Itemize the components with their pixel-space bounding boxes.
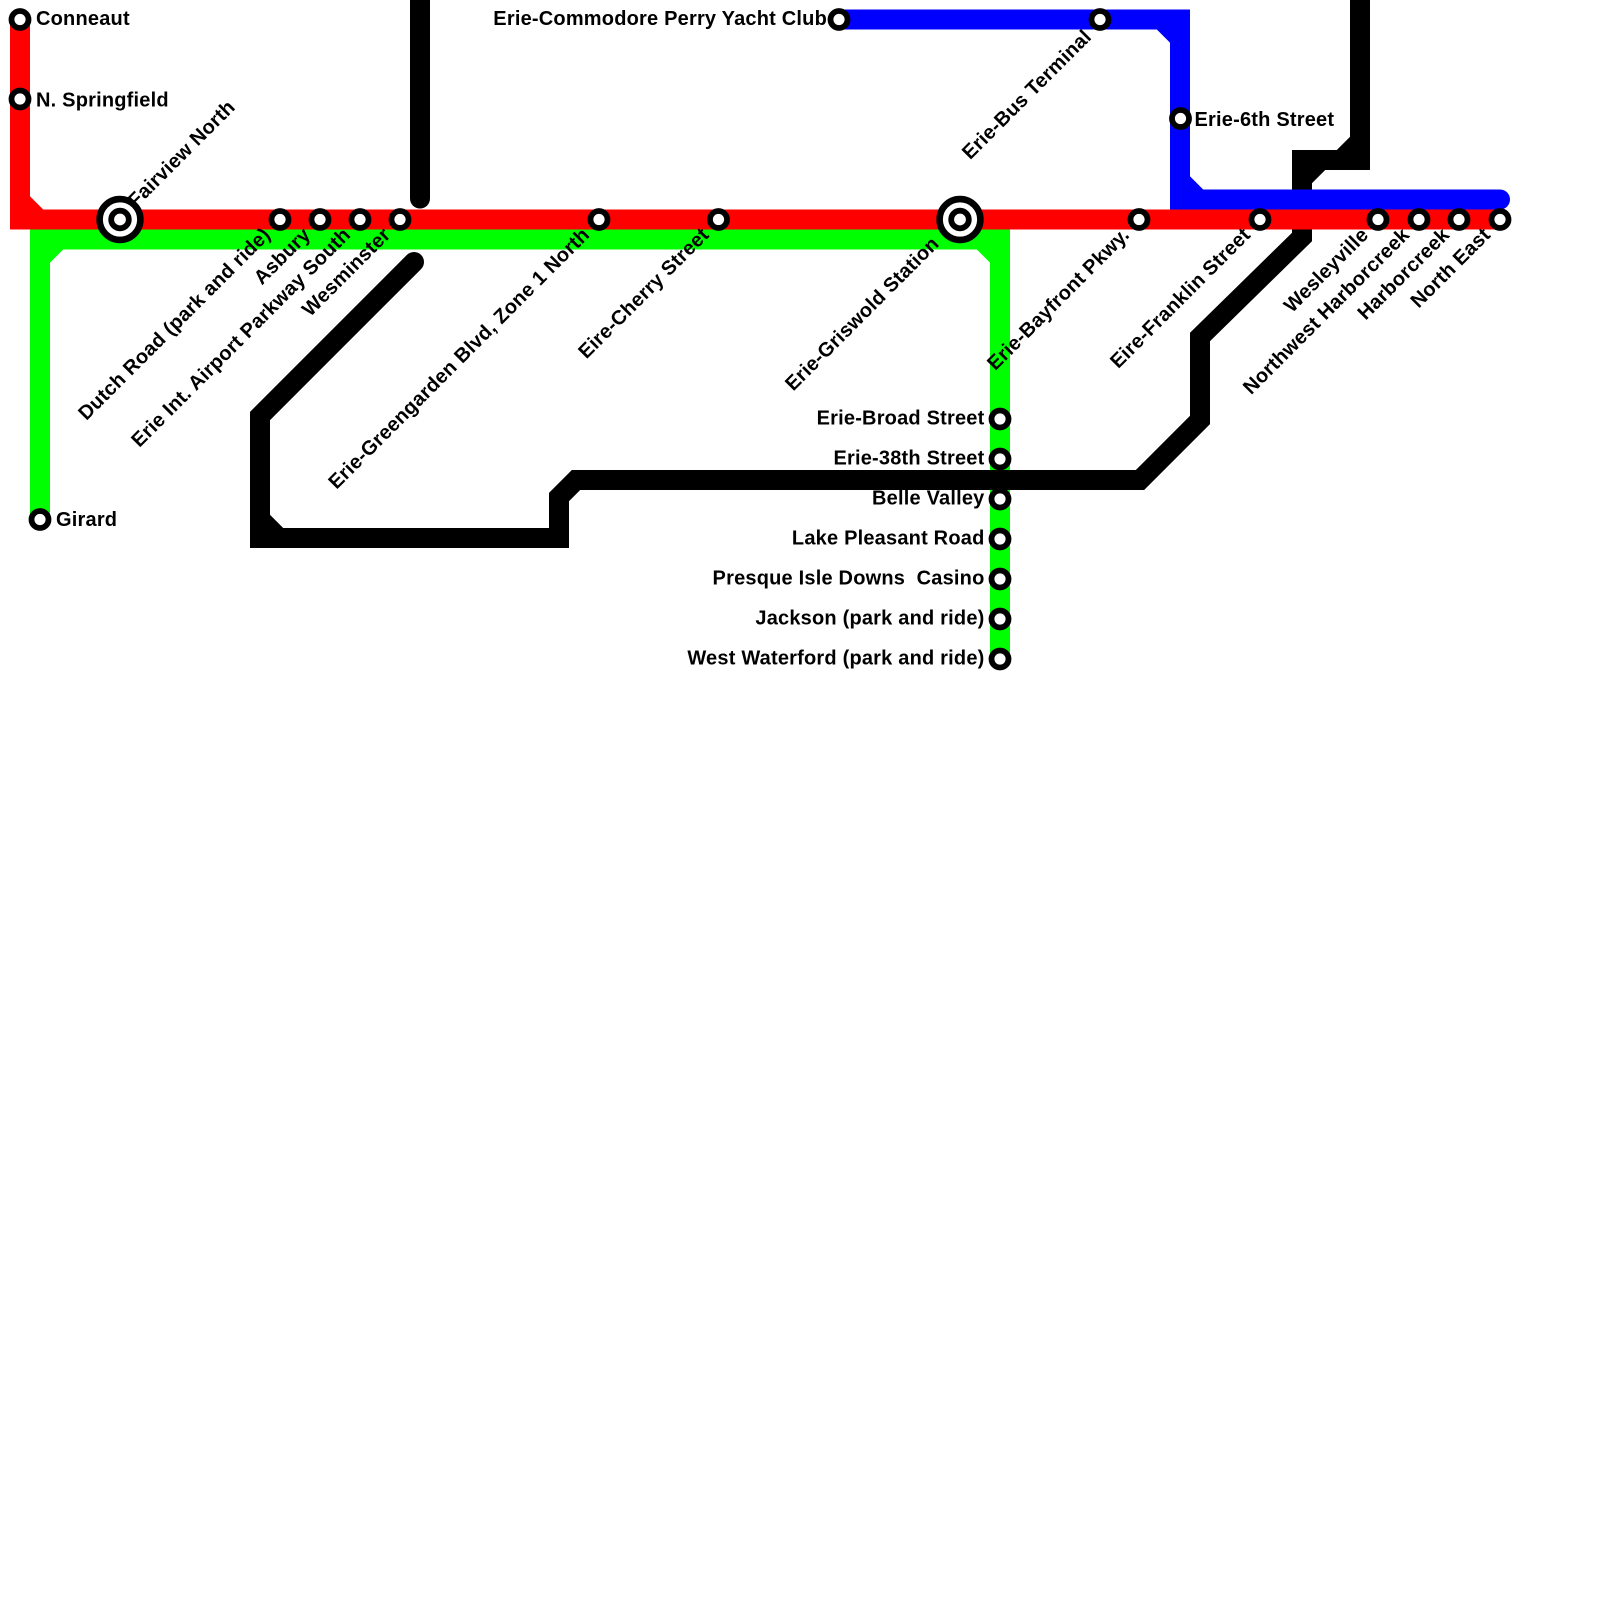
station West Waterford xyxy=(992,651,1009,668)
station Erie-Commodore Perry Yacht Club xyxy=(831,11,848,28)
interchange Erie-Griswold Station xyxy=(940,199,981,240)
station Erie-6th Street xyxy=(1172,110,1189,127)
svg-text:West Waterford (park and ride): West Waterford (park and ride) xyxy=(687,648,984,670)
station Presque Isle Downs Casino xyxy=(992,571,1009,588)
station Jackson xyxy=(992,611,1009,628)
blue line corner spur at (1180,199.5) xyxy=(1180,181,1199,200)
station Northwest Harborcreek xyxy=(1411,211,1428,228)
station Lake Pleasant Road xyxy=(992,531,1009,548)
red line corner spur at (20,219.5) xyxy=(20,201,39,220)
red line xyxy=(20,20,1500,220)
svg-text:Jackson (park and ride): Jackson (park and ride) xyxy=(755,608,984,630)
station Dutch Road xyxy=(272,211,289,228)
black line corner spur at (1302,160) xyxy=(1302,160,1321,179)
station Belle Valley xyxy=(992,491,1009,508)
station Girard xyxy=(32,511,49,528)
station Erie-Bus Terminal xyxy=(1092,11,1109,28)
green line corner spur at (1000,239.5) xyxy=(981,240,1000,259)
station Harborcreek xyxy=(1451,211,1468,228)
blue line xyxy=(843,20,1500,200)
svg-text:Erie-6th Street: Erie-6th Street xyxy=(1195,109,1335,131)
station Erie-Broad Street xyxy=(992,411,1009,428)
station Eire-Cherry Street xyxy=(710,211,727,228)
station Wesminster xyxy=(392,211,409,228)
black line corner spur at (1360,160) xyxy=(1341,141,1360,160)
black line corner spur at (260,538) xyxy=(260,519,279,538)
svg-text:Presque Isle Downs Casino: Presque Isle Downs Casino xyxy=(713,568,985,590)
blue line corner spur at (1180,19.5) xyxy=(1161,20,1180,39)
svg-text:Erie-Commodore Perry Yacht Clu: Erie-Commodore Perry Yacht Club xyxy=(493,8,827,30)
svg-text:Erie-Broad Street: Erie-Broad Street xyxy=(817,408,985,430)
svg-text:Lake Pleasant Road: Lake Pleasant Road xyxy=(792,528,985,550)
station Conneaut xyxy=(12,11,29,28)
station Erie-Bayfront Pkwy. xyxy=(1131,211,1148,228)
svg-text:Erie-38th Street: Erie-38th Street xyxy=(833,448,984,470)
black line (main loop from west to north-east) xyxy=(260,0,1360,538)
svg-text:Conneaut: Conneaut xyxy=(36,8,130,30)
svg-text:Belle Valley: Belle Valley xyxy=(872,488,985,510)
station Erie-Greengarden Blvd xyxy=(591,211,608,228)
station Erie Int. Airport Parkway South xyxy=(352,211,369,228)
station Eire-Franklin Street xyxy=(1252,211,1269,228)
green line (Girard branch + Erie south branch) xyxy=(30,240,1000,660)
black line (north vertical segment) xyxy=(410,0,430,199)
green line Girard branch xyxy=(30,240,50,520)
station Wesleyville xyxy=(1370,211,1387,228)
interchange Fairview North xyxy=(100,199,141,240)
station Erie-38th Street xyxy=(992,451,1009,468)
svg-text:Girard: Girard xyxy=(56,509,117,531)
station N. Springfield xyxy=(12,91,29,108)
station Asbury xyxy=(312,211,329,228)
station North East xyxy=(1492,211,1509,228)
svg-text:N. Springfield: N. Springfield xyxy=(36,90,169,112)
green line corner spur at (40,239.5) xyxy=(40,240,59,259)
